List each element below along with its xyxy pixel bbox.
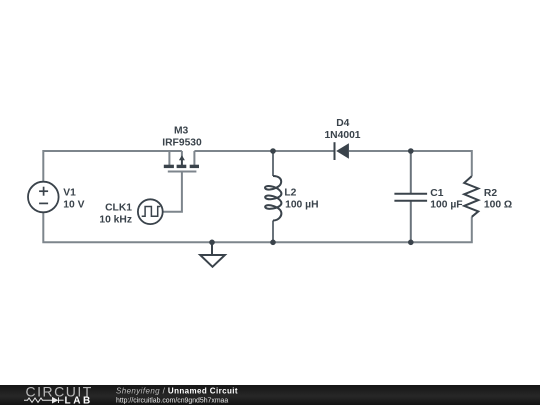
svg-text:10 kHz: 10 kHz <box>99 215 132 226</box>
svg-text:CLK1: CLK1 <box>105 203 132 214</box>
svg-text:100 Ω: 100 Ω <box>484 200 512 211</box>
svg-text:10 V: 10 V <box>63 200 84 211</box>
svg-text:100 µH: 100 µH <box>285 200 318 211</box>
wire top rail right (M3 to R2) <box>194 150 334 152</box>
transistor M3 (PMOS) pins <box>168 151 197 172</box>
svg-text:LAB: LAB <box>65 395 93 405</box>
left stub <box>168 151 170 165</box>
M3 arrow <box>181 158 183 165</box>
diode D4 <box>335 142 349 160</box>
node L2 bottom <box>270 240 276 246</box>
node L2 top <box>270 148 276 154</box>
clock source CLK1 <box>138 199 163 224</box>
middle stub <box>181 151 183 157</box>
capacitor C1 <box>410 151 412 242</box>
svg-text:C1: C1 <box>430 188 443 199</box>
svg-text:Shenyifeng / Unnamed Circuit: Shenyifeng / Unnamed Circuit <box>116 387 238 396</box>
wire gate to CLK1 <box>163 172 182 212</box>
resistor R2 <box>464 176 478 217</box>
svg-text:http://circuitlab.com/cn9gnd5h: http://circuitlab.com/cn9gnd5h7xmaa <box>116 397 228 404</box>
node junction dots <box>209 148 413 245</box>
svg-text:L2: L2 <box>284 188 296 199</box>
node C1 top <box>408 148 414 154</box>
inductor L2 <box>272 151 274 176</box>
voltage source V1 <box>28 182 59 213</box>
svg-text:R2: R2 <box>484 188 497 199</box>
footer bar <box>0 385 540 405</box>
svg-text:M3: M3 <box>174 126 189 137</box>
ground <box>200 242 225 266</box>
svg-text:1N4001: 1N4001 <box>324 130 360 141</box>
wire diode to R2 corner <box>349 151 472 176</box>
M3 contact bars <box>164 165 199 168</box>
svg-text:IRF9530: IRF9530 <box>162 138 202 149</box>
svg-text:100 µF: 100 µF <box>430 200 462 211</box>
svg-text:D4: D4 <box>336 118 349 129</box>
right stub <box>193 151 195 165</box>
node C1 bottom <box>408 240 414 246</box>
wire top rail left (V1 to M3) <box>43 151 182 182</box>
node ground <box>209 240 215 246</box>
gate line <box>168 171 197 173</box>
svg-text:V1: V1 <box>63 188 76 199</box>
wire bottom rail <box>43 212 472 242</box>
